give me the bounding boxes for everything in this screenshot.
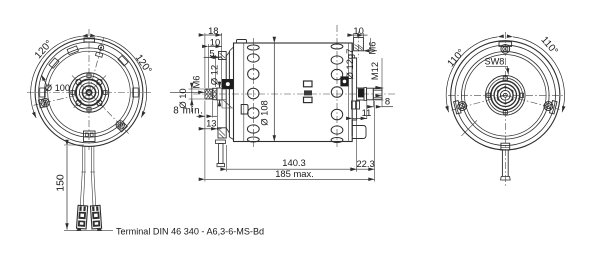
rear stub shaft dia 12g7 [357, 88, 364, 100]
vent holes rear column [331, 44, 343, 143]
svg-text:M12: M12 [369, 62, 380, 80]
assembly screw lower-left [38, 98, 50, 108]
rear lower screw washer [352, 101, 360, 109]
terminal left [76, 205, 87, 231]
terminal block rects mid-body [304, 81, 313, 103]
hub ring 4 [494, 84, 516, 106]
dim 8 rear [369, 95, 393, 107]
vent column centerline front [252, 38, 254, 147]
rim tab upper-right [118, 56, 128, 66]
case circle [465, 55, 547, 137]
dia 10 dim front [177, 85, 204, 113]
screw boss lower-right [543, 99, 557, 114]
M6 boss leader [363, 50, 377, 52]
outer housing circle [35, 39, 143, 147]
hub outer circle [69, 73, 109, 113]
hex nut SW8 [498, 87, 514, 105]
hub outer circle [486, 76, 526, 116]
dim 8 min [173, 106, 217, 117]
bearing boss circle [82, 86, 95, 99]
dim 10 boss [350, 25, 368, 36]
diagonal centerline to lower-right screw [505, 95, 559, 109]
hub notches [487, 77, 524, 114]
dim 11 rear [352, 101, 371, 120]
150 extension bottom / leader to text [64, 230, 113, 232]
dia 100 leader [41, 75, 47, 87]
dia 108 dim [259, 43, 275, 142]
ext lines boss 10 [354, 33, 364, 37]
svg-text:11: 11 [362, 107, 372, 118]
cable ribs [501, 146, 510, 148]
case circle [48, 51, 131, 134]
svg-text:SW8: SW8 [485, 57, 505, 67]
clamp ring circle [44, 48, 133, 137]
dim 5 [204, 47, 221, 58]
rear face profile [352, 43, 356, 136]
cable gland bottom inside [84, 131, 96, 142]
hub diagonal centerlines [72, 76, 106, 110]
ext x374.5 [374, 101, 376, 182]
assembly screw lower-right [114, 119, 127, 132]
rim tab upper-left outer [49, 58, 59, 68]
front lower lug [218, 128, 226, 138]
front leg foot [217, 164, 225, 167]
svg-text:5: 5 [209, 47, 214, 58]
rear housing seam [348, 43, 350, 142]
body outline [234, 43, 353, 142]
M12 stud thread [373, 89, 382, 99]
shaft thread section M6 [205, 89, 213, 99]
cable [502, 150, 508, 177]
svg-text:18: 18 [208, 25, 218, 36]
SW8 leader [486, 66, 508, 74]
150 dimension line [66, 146, 68, 230]
screw upper-right small [95, 44, 104, 57]
ext x356.6 [356, 102, 358, 172]
shaft lines through flange [222, 89, 226, 100]
boss centerline rear top [358, 32, 360, 59]
wire left [80, 146, 85, 206]
svg-text:Ø 108: Ø 108 [259, 100, 270, 126]
dim 13 [201, 117, 222, 129]
screw boss top [499, 42, 512, 54]
rim tab left [40, 88, 46, 97]
svg-text:10: 10 [353, 25, 363, 36]
cable gland [501, 143, 510, 150]
ext line x217.3 below [216, 101, 218, 131]
hub screws at diagonals [76, 79, 102, 105]
ext line x212.7 below [212, 101, 214, 118]
rear lock element dark [358, 89, 364, 98]
110 deg arc right [513, 37, 565, 112]
hub notches [71, 74, 107, 111]
horizontal centerline [27, 92, 152, 94]
ext line x215.6 [215, 55, 217, 87]
front upper lug [219, 52, 227, 60]
rear nut [367, 88, 374, 100]
front bearing housing below [222, 100, 234, 109]
svg-text:10: 10 [210, 36, 220, 47]
rear washer [364, 88, 367, 101]
svg-text:M6: M6 [366, 41, 377, 54]
shaft dia12 section [217, 88, 222, 100]
inner circle [462, 52, 550, 140]
wire right [91, 146, 95, 206]
shaft collar [213, 88, 217, 99]
ring circle [455, 45, 555, 145]
svg-text:Ø 100: Ø 100 [45, 83, 70, 93]
dim 185 max [205, 168, 375, 179]
svg-text:185 max.: 185 max. [275, 168, 314, 179]
diagonal centerline upper-right [89, 37, 104, 92]
rim tab top flat [84, 38, 95, 42]
brush cover small rect [241, 105, 248, 115]
svg-text:13: 13 [206, 117, 216, 128]
hub ring 2 [72, 76, 105, 109]
cable end [501, 177, 511, 181]
front housing seam [243, 43, 245, 142]
vertical centerline [88, 29, 90, 150]
front bearing (section, black) [222, 79, 234, 89]
svg-text:Terminal DIN 46 340 - A6,3-6-M: Terminal DIN 46 340 - A6,3-6-MS-Bd [116, 227, 264, 237]
rear foot lug [352, 126, 366, 139]
shaft circle dark [85, 89, 92, 96]
inner leader line lower-left [461, 120, 477, 136]
svg-text:Ø 12g7: Ø 12g7 [344, 49, 355, 80]
top front tab [237, 40, 247, 44]
M12/12g7 ext vertical [381, 58, 383, 107]
dim 10 front [208, 45, 221, 47]
rim tab right [133, 88, 139, 97]
dim 140.3 [227, 157, 357, 169]
120 deg arc right [96, 36, 146, 117]
rim ring circle [39, 42, 140, 143]
vent holes front column [247, 45, 259, 142]
horizontal centerline [448, 94, 563, 96]
110 deg arc left [446, 37, 497, 112]
svg-text:22.3: 22.3 [356, 158, 374, 169]
dim 22.3 [356, 158, 374, 169]
hub ring 2 [488, 78, 522, 112]
svg-text:150: 150 [56, 174, 67, 192]
ext line x221.7 [221, 33, 223, 87]
ext line x208.3 [207, 44, 209, 88]
shaft center white [88, 91, 91, 94]
diagonal centerline lower-right through screw [89, 93, 129, 134]
150 extension top [64, 144, 84, 146]
rear bearing (section, black) [340, 76, 348, 86]
hub ring 4 [79, 83, 98, 102]
main centerline [193, 93, 397, 95]
ext x226.6 [226, 145, 228, 172]
terminal right [90, 205, 102, 231]
rim tab upper-left inner [67, 46, 78, 55]
front leg cap [216, 140, 226, 144]
svg-text:8 min.: 8 min. [173, 106, 203, 117]
svg-text:Ø 12: Ø 12 [209, 65, 220, 85]
front leg stem [219, 144, 223, 164]
outer circle [451, 41, 560, 150]
svg-text:8: 8 [385, 95, 390, 106]
shaft center dot [88, 92, 89, 93]
dim 18 [205, 34, 222, 36]
diagonal centerline to lower-left screw [452, 95, 506, 110]
diagonal centerline lower-left through screw [34, 93, 90, 106]
front flange band [226, 47, 233, 140]
vent column centerline rear [336, 25, 338, 147]
svg-text:140.3: 140.3 [282, 157, 305, 168]
ext line shaft tip [204, 33, 206, 182]
top rear boss M6 [354, 37, 364, 50]
12g7 ext horizontals + arrows [374, 88, 384, 100]
hub ring 3 [491, 81, 520, 110]
dia 12 front label [209, 65, 220, 107]
hub ring 3 [76, 79, 102, 105]
screw boss lower-left [454, 99, 468, 114]
vertical centerline [504, 32, 506, 188]
120 deg arc left [31, 36, 82, 118]
wire sleeve ticks [81, 171, 95, 173]
